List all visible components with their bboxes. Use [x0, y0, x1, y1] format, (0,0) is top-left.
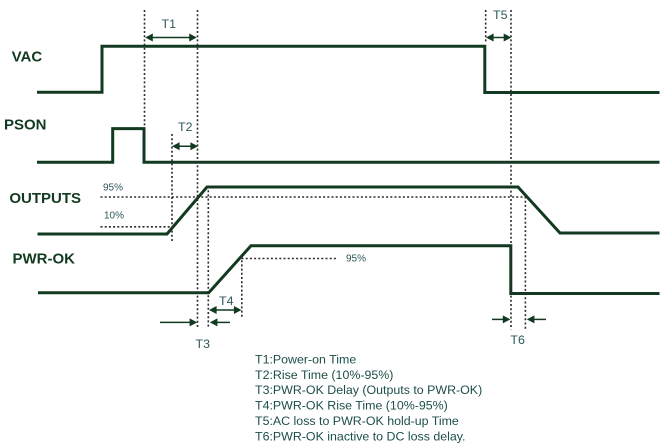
T2 double arrow [172, 142, 198, 150]
svg-text:T6: T6 [510, 333, 525, 347]
svg-text:95%: 95% [346, 254, 366, 265]
dotted vertical D2 (T1/T2 right, T3 left) [197, 10, 199, 328]
PSON waveform [37, 129, 660, 163]
T4 double arrow [209, 306, 242, 314]
svg-text:T5:AC loss to PWR-OK hold-up T: T5:AC loss to PWR-OK hold-up Time [255, 414, 459, 428]
svg-text:T6:PWR-OK inactive to DC loss: T6:PWR-OK inactive to DC loss delay. [255, 429, 465, 443]
svg-text:T3: T3 [196, 337, 211, 351]
svg-text:T1:Power-on Time: T1:Power-on Time [255, 353, 356, 367]
svg-text:T2:Rise Time (10%-95%): T2:Rise Time (10%-95%) [255, 368, 393, 382]
dotted vertical D5 (T4 right) [241, 256, 243, 319]
dotted vertical D7 (T5 right / T6 left) [510, 10, 512, 330]
svg-text:T1: T1 [162, 17, 177, 31]
PWR-OK waveform [38, 246, 660, 294]
T6 inward arrows [492, 315, 546, 323]
dotted vertical D4 (T3 right / T4 left) [207, 186, 209, 328]
T1 double arrow [145, 34, 197, 42]
svg-text:T5: T5 [493, 8, 508, 22]
T3 inward arrows [160, 318, 230, 326]
svg-text:10%: 10% [104, 210, 124, 221]
VAC waveform [37, 46, 660, 92]
dotted vertical D1 (T1 left) [144, 10, 146, 129]
svg-text:T3:PWR-OK Delay (Outputs to PW: T3:PWR-OK Delay (Outputs to PWR-OK) [255, 383, 482, 397]
dotted horizontal 95% PWR-OK leader [242, 258, 339, 260]
legend text block [255, 353, 482, 444]
dotted vertical D3 (T2 left) [171, 134, 173, 241]
svg-text:T2: T2 [178, 120, 193, 134]
OUTPUTS waveform [38, 187, 660, 234]
svg-text:PWR-OK: PWR-OK [13, 251, 76, 268]
svg-text:OUTPUTS: OUTPUTS [9, 190, 81, 207]
T5 double arrow [486, 34, 511, 42]
dotted vertical D8 (T6 right) [524, 197, 526, 330]
svg-text:VAC: VAC [12, 48, 43, 65]
svg-text:PSON: PSON [4, 117, 47, 134]
dotted vertical D6 (T5 left) [485, 10, 487, 43]
dotted horizontal 95% OUTPUTS level [101, 196, 526, 198]
svg-text:95%: 95% [103, 183, 123, 194]
dotted horizontal 10% OUTPUTS level [101, 226, 175, 228]
svg-text:T4:PWR-OK Rise Time (10%-95%): T4:PWR-OK Rise Time (10%-95%) [255, 399, 448, 413]
svg-text:T4: T4 [219, 294, 234, 308]
